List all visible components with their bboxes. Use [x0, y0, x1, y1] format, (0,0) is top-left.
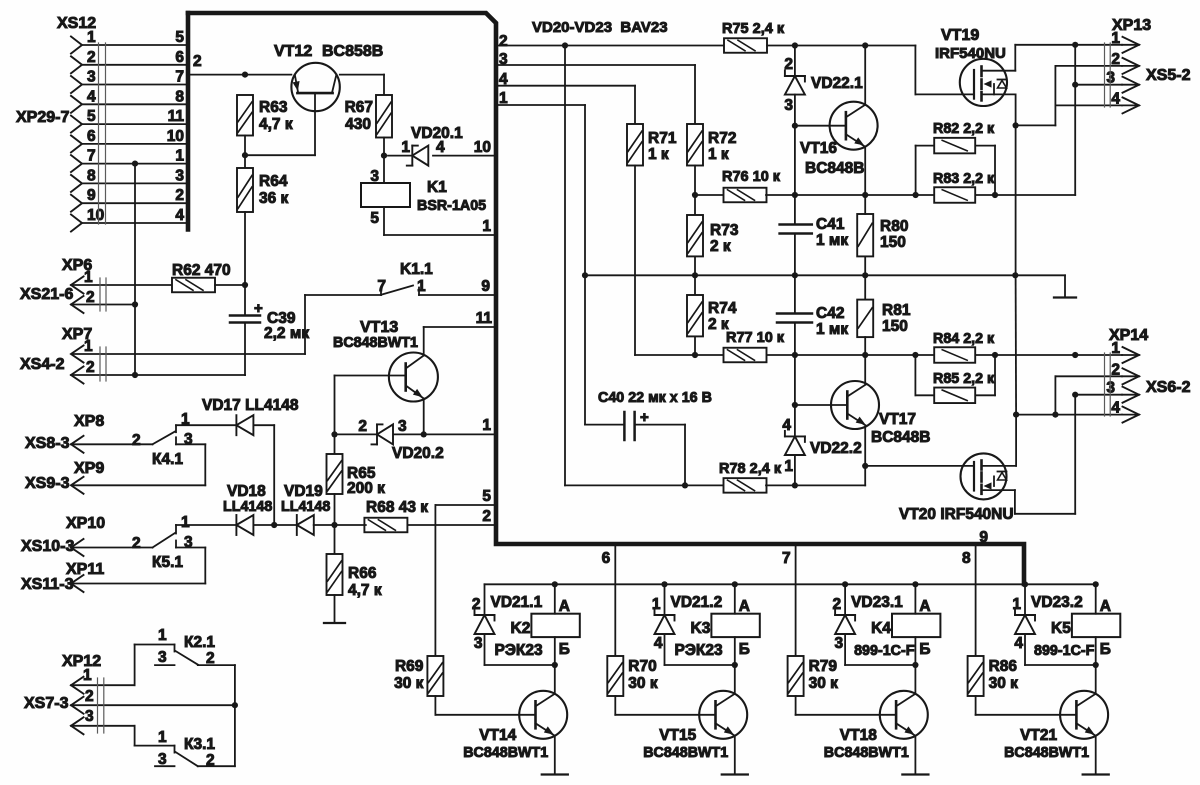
- transistor VT18 (NPN): [880, 691, 928, 739]
- connector XP14 pin 3 chevron: [1123, 387, 1140, 403]
- svg-text:VD20.2: VD20.2: [392, 445, 444, 462]
- wire VT21 collector: [1095, 665, 1097, 694]
- resistor R69: [427, 656, 443, 696]
- connector XS12 pin 7 chevron: [71, 155, 82, 172]
- wire VT16 base: [792, 123, 798, 129]
- svg-text:8: 8: [962, 550, 971, 567]
- wire K1.1 to module pin 9: [419, 294, 496, 296]
- transistor VT12 (PNP): [291, 63, 339, 111]
- connector XS12 pin 5 chevron: [71, 116, 82, 133]
- wire VT15 collector: [734, 665, 736, 694]
- module pin 7 wire to R79: [795, 544, 797, 656]
- XP14 pin2 row: [1055, 375, 1122, 377]
- svg-text:5: 5: [482, 488, 491, 505]
- svg-text:XS4-2: XS4-2: [20, 356, 65, 373]
- svg-text:Б: Б: [919, 641, 930, 658]
- wire K2.1 contact2: [198, 664, 235, 666]
- svg-text:R73: R73: [710, 222, 739, 239]
- svg-text:3: 3: [1106, 70, 1115, 87]
- svg-text:4: 4: [782, 417, 791, 434]
- wire VT19 drain to XP13 pin1: [1015, 44, 1122, 46]
- wire VT21 emitter to ground: [1095, 736, 1097, 775]
- svg-text:3: 3: [158, 649, 167, 666]
- svg-text:XS7-3: XS7-3: [24, 695, 69, 712]
- connector XS12 pin 3 chevron: [71, 76, 82, 93]
- svg-text:1: 1: [175, 148, 184, 165]
- XP13 pin2 row: [1055, 65, 1122, 67]
- svg-text:R81: R81: [882, 302, 911, 319]
- resistor R66: [334, 525, 336, 554]
- svg-text:430: 430: [345, 116, 371, 133]
- svg-text:899-1C-F: 899-1C-F: [1034, 643, 1095, 659]
- resistor R83: [934, 187, 975, 203]
- resistor R81: [857, 300, 873, 338]
- relay K5 terminal wires: [1093, 581, 1099, 587]
- svg-text:3: 3: [85, 708, 94, 725]
- svg-text:4: 4: [175, 207, 184, 224]
- svg-text:10: 10: [167, 128, 184, 145]
- wire K5.1 contact1 to VD18: [176, 524, 236, 526]
- svg-text:1: 1: [84, 269, 93, 286]
- svg-text:4: 4: [654, 635, 663, 652]
- svg-text:R66: R66: [348, 565, 377, 582]
- wire R81 to R84 row: [864, 337, 866, 384]
- svg-text:VT18: VT18: [840, 727, 877, 744]
- svg-text:5: 5: [175, 29, 184, 46]
- svg-text:7: 7: [87, 148, 96, 165]
- ground symbol right: [1064, 275, 1066, 297]
- svg-text:1: 1: [83, 667, 92, 684]
- svg-text:R76 10 к: R76 10 к: [722, 169, 781, 185]
- svg-text:R79: R79: [809, 658, 838, 675]
- connector XS12 pin 6 wire: [82, 143, 188, 145]
- cable marker XP6: [99, 278, 101, 311]
- R77/R84 long row: [635, 354, 724, 356]
- svg-text:VD21.1: VD21.1: [491, 594, 543, 611]
- wire R62 to C39 node: [215, 284, 245, 286]
- svg-text:VT16: VT16: [800, 140, 837, 157]
- diode VD17: [235, 415, 237, 435]
- svg-text:K1.1: K1.1: [400, 261, 433, 278]
- svg-text:R75 2,4 к: R75 2,4 к: [722, 21, 785, 37]
- relay coil K4: [892, 614, 940, 637]
- resistor R64: [237, 168, 253, 212]
- svg-text:7: 7: [175, 69, 184, 86]
- wire VT14 emitter to ground: [554, 736, 556, 775]
- relay coil K1: [361, 183, 410, 207]
- svg-text:Б: Б: [1100, 641, 1111, 658]
- svg-text:R74: R74: [708, 300, 737, 317]
- svg-text:VT13: VT13: [360, 319, 398, 336]
- svg-text:А: А: [919, 598, 930, 615]
- svg-text:R83 2,2 к: R83 2,2 к: [933, 171, 995, 187]
- resistor R62: [172, 278, 215, 293]
- svg-text:2: 2: [132, 432, 141, 449]
- svg-text:2 к: 2 к: [710, 238, 731, 255]
- svg-text:R64: R64: [259, 173, 288, 190]
- svg-text:1: 1: [158, 627, 167, 644]
- R84/R85 right link: [994, 355, 996, 395]
- svg-text:2: 2: [358, 418, 367, 435]
- connector XP7 pin 2: [71, 367, 84, 384]
- connector XP10 pin wire: [71, 539, 84, 556]
- svg-text:А: А: [739, 598, 750, 615]
- svg-text:R85 2,2 к: R85 2,2 к: [933, 371, 995, 387]
- svg-text:VT19: VT19: [941, 27, 979, 44]
- resistor R63: [237, 95, 253, 136]
- resistor R74: [687, 295, 703, 336]
- svg-text:2: 2: [499, 33, 508, 50]
- svg-text:3: 3: [398, 418, 407, 435]
- R82 right wire: [975, 145, 995, 147]
- svg-text:XS9-3: XS9-3: [25, 475, 70, 492]
- capacitor C42: [794, 275, 796, 313]
- module block thick border with beveled corner: [188, 13, 1024, 584]
- svg-text:XS11-3: XS11-3: [21, 576, 74, 593]
- svg-text:VD23.2: VD23.2: [1031, 594, 1083, 611]
- svg-text:10: 10: [474, 139, 491, 156]
- svg-text:R77 10 к: R77 10 к: [726, 330, 785, 346]
- relay K2 terminal wires: [552, 581, 558, 587]
- svg-text:150: 150: [882, 318, 908, 335]
- svg-text:VD20-VD23 BAV23: VD20-VD23 BAV23: [532, 19, 668, 36]
- cell K5 bottom link: [1025, 664, 1096, 666]
- capacitor C39: [244, 285, 246, 316]
- svg-text:VD17 LL4148: VD17 LL4148: [202, 397, 299, 414]
- ground VT15: [722, 773, 748, 775]
- relay supply rail: [485, 583, 1096, 585]
- transistor VT17 (NPN): [831, 381, 879, 429]
- connector XP12 pin 3: [71, 717, 84, 734]
- svg-text:R67: R67: [345, 99, 373, 116]
- svg-text:VT17: VT17: [879, 411, 916, 428]
- wire VT17 base: [794, 355, 796, 405]
- wire VT18 emitter to ground: [914, 736, 916, 775]
- wire VT15 emitter to ground: [734, 736, 736, 775]
- svg-text:XS8-3: XS8-3: [25, 435, 70, 452]
- ground VT14: [542, 773, 568, 775]
- connector XS12 pin 6 chevron: [71, 135, 82, 152]
- diode VD23.2 (dual zener half): [1024, 584, 1026, 615]
- resistor R73: [687, 215, 703, 256]
- svg-text:LL4148: LL4148: [281, 499, 330, 515]
- R76 row wire: [695, 194, 724, 196]
- relay coil K5: [1072, 614, 1120, 637]
- connector XP13 pin 4 chevron: [1123, 97, 1140, 113]
- connector XS12 pin 8 wire: [82, 182, 188, 184]
- connector XS12 pin 4 chevron: [71, 96, 82, 113]
- wire R65 to R68 row: [334, 494, 336, 525]
- R82 left wire: [916, 145, 934, 147]
- connector XP9 chevron: [71, 477, 84, 494]
- wire R63 to R64: [244, 136, 246, 169]
- wire VT14 collector: [554, 665, 556, 694]
- wire VT20 drain riser: [1015, 415, 1017, 466]
- cable marker XP13: [1104, 43, 1106, 107]
- diode VD18: [235, 515, 237, 535]
- svg-text:9: 9: [481, 278, 490, 295]
- svg-text:К2.1: К2.1: [184, 634, 215, 651]
- wire VT19 source down: [1015, 94, 1017, 125]
- connector XP6 pin 2: [71, 296, 84, 313]
- svg-text:РЭК23: РЭК23: [675, 642, 723, 659]
- diode VD20.1: [411, 146, 413, 166]
- svg-text:2: 2: [175, 187, 184, 204]
- transistor VT19 (MOSFET): [960, 59, 1007, 106]
- svg-text:1: 1: [181, 514, 190, 531]
- svg-text:VT12: VT12: [274, 43, 312, 60]
- connector XS12 pin 10 chevron: [71, 215, 82, 232]
- svg-text:3: 3: [1106, 380, 1115, 397]
- wire VD19 to R68: [314, 524, 366, 526]
- module pin 6 wire to R70: [614, 544, 616, 656]
- R83 row nodes: [913, 192, 919, 198]
- svg-text:XP12: XP12: [62, 653, 101, 670]
- XP14 pin3 row: [1075, 394, 1122, 396]
- XP13 pin3 row: [1075, 84, 1122, 86]
- svg-text:VD23.1: VD23.1: [851, 594, 903, 611]
- wire K5.1 contact3 to XP11: [176, 547, 205, 549]
- connector XP13 pin 3 chevron: [1123, 77, 1140, 93]
- svg-text:3: 3: [370, 168, 379, 185]
- svg-text:30 к: 30 к: [394, 675, 424, 692]
- resistor R71: [627, 124, 643, 166]
- svg-text:3: 3: [175, 167, 184, 184]
- module block left edge: [186, 13, 191, 230]
- svg-text:XS21-6: XS21-6: [20, 286, 73, 303]
- svg-text:1: 1: [482, 218, 491, 235]
- wire VT20 source: [1014, 490, 1016, 514]
- connector XS12 pin 1 chevron: [71, 37, 82, 54]
- connector XP11 chevron: [71, 575, 84, 592]
- svg-text:6: 6: [87, 128, 96, 145]
- wire VT12 collector to R67: [340, 74, 384, 76]
- wire VT16 emitter to R76 row: [864, 147, 866, 195]
- svg-text:4,7 к: 4,7 к: [259, 116, 293, 133]
- wire VT17 emitter: [864, 427, 866, 486]
- svg-text:C42: C42: [816, 305, 844, 322]
- connector XS12 pin 8 chevron: [71, 175, 82, 192]
- svg-text:6: 6: [175, 49, 184, 66]
- wire pin2-row down to R78 row: [562, 42, 568, 48]
- wire XP7 pin2 to VT13 base: [244, 374, 246, 376]
- connector XP14 pin 2 chevron: [1123, 368, 1140, 384]
- svg-text:LL4148: LL4148: [223, 499, 272, 515]
- wire VT18 collector: [914, 665, 916, 694]
- svg-text:5: 5: [87, 108, 96, 125]
- cell K2 bottom link: [485, 664, 555, 666]
- wire R86 to VT21 base: [975, 696, 977, 715]
- svg-text:36 к: 36 к: [259, 190, 289, 207]
- ground VT21: [1083, 773, 1109, 775]
- svg-text:VD22.2: VD22.2: [810, 440, 862, 457]
- svg-text:3: 3: [784, 97, 793, 114]
- wire VT13 collector to module pin 11: [423, 327, 425, 356]
- wire R72 to R73: [694, 166, 696, 216]
- svg-text:BC848B: BC848B: [805, 160, 864, 177]
- svg-text:30 к: 30 к: [628, 675, 658, 692]
- svg-text:2: 2: [85, 688, 94, 705]
- relay coil K2: [531, 614, 579, 637]
- svg-text:R78 2,4 к: R78 2,4 к: [719, 461, 782, 477]
- svg-text:K4: K4: [871, 620, 891, 637]
- svg-text:2,2 мк: 2,2 мк: [264, 325, 309, 342]
- svg-text:BC858B: BC858B: [322, 43, 383, 60]
- connector XS12 pin 10 wire: [82, 222, 188, 224]
- connector XS12 pin 3 wire: [82, 84, 188, 86]
- ground VT18: [902, 773, 928, 775]
- svg-text:2: 2: [472, 596, 481, 613]
- svg-text:R72: R72: [708, 130, 736, 147]
- svg-text:4: 4: [87, 88, 96, 105]
- svg-text:2: 2: [86, 359, 95, 376]
- wire K3.1 contact2: [198, 765, 235, 767]
- svg-text:1: 1: [87, 29, 96, 46]
- svg-text:К5.1: К5.1: [152, 554, 183, 571]
- cable marker XP14: [1104, 353, 1106, 416]
- diode VD21.1 (dual zener half): [484, 584, 486, 615]
- svg-text:11: 11: [168, 108, 185, 125]
- connector XS12 pin 1 wire: [82, 44, 188, 46]
- svg-text:3: 3: [474, 635, 483, 652]
- svg-text:VT15: VT15: [659, 727, 696, 744]
- connector XS12 pin 7 wire: [82, 163, 188, 165]
- wire R69 to VT14 base: [434, 696, 436, 715]
- svg-text:XS10-3: XS10-3: [21, 538, 74, 555]
- wire pins1,3 to R83 row: [1074, 45, 1076, 195]
- ground under R66: [334, 595, 336, 623]
- wire VT16 collector: [864, 46, 866, 105]
- connector XS12 pin 4 wire: [82, 103, 188, 105]
- svg-text:R63: R63: [259, 99, 288, 116]
- resistor R76: [724, 188, 767, 203]
- transistor VT21 (NPN): [1060, 691, 1108, 739]
- connector XP12 pin 2: [71, 697, 84, 714]
- svg-text:IRF540NU: IRF540NU: [935, 45, 1006, 62]
- transistor VT20 (MOSFET): [961, 453, 1007, 499]
- wire pin5 down to K2 cell: [434, 505, 436, 656]
- svg-text:R68 43 к: R68 43 к: [366, 499, 428, 516]
- svg-text:K2: K2: [511, 620, 531, 637]
- resistor R75: [724, 38, 767, 53]
- wire R74 to R77 row: [694, 336, 696, 355]
- svg-text:4,7 к: 4,7 к: [348, 582, 382, 599]
- module pin 8 wire to R86: [975, 544, 977, 656]
- svg-text:+: +: [640, 409, 649, 426]
- svg-text:4: 4: [1014, 635, 1023, 652]
- resistor R82: [934, 138, 975, 154]
- wire R64 down to R62 junction: [244, 212, 246, 285]
- svg-text:Б: Б: [739, 641, 750, 658]
- relay K4 terminal wires: [912, 581, 918, 587]
- svg-text:К3.1: К3.1: [184, 736, 215, 753]
- svg-text:2: 2: [784, 56, 793, 73]
- svg-text:1: 1: [784, 458, 793, 475]
- resistor R84: [934, 347, 975, 363]
- resistor R70: [607, 656, 623, 696]
- svg-text:11: 11: [476, 310, 493, 327]
- connector XP12 pin 1: [71, 677, 84, 694]
- svg-text:6: 6: [602, 550, 611, 567]
- wire source to XP13 pins 2,4: [1016, 124, 1056, 126]
- svg-text:BC848BWT1: BC848BWT1: [333, 335, 418, 351]
- svg-text:XP29-7: XP29-7: [16, 109, 69, 126]
- connector XP14 pin 4 chevron: [1123, 407, 1140, 423]
- diode VD19: [296, 515, 298, 535]
- svg-text:VT20 IRF540NU: VT20 IRF540NU: [899, 506, 1014, 523]
- svg-text:5: 5: [370, 210, 379, 227]
- svg-text:К4.1: К4.1: [152, 451, 183, 468]
- module pin 5 wire: [435, 504, 496, 506]
- XP14 pin4 row: [1016, 414, 1122, 416]
- cable marker XP12: [97, 678, 99, 733]
- svg-text:XP10: XP10: [66, 515, 105, 532]
- cell K4 bottom link: [845, 664, 915, 666]
- svg-text:BC848BWT1: BC848BWT1: [463, 745, 548, 761]
- svg-text:VT14: VT14: [479, 727, 516, 744]
- connector XS12 pin 9 wire: [82, 202, 188, 204]
- connector XP8 pin wire: [71, 436, 84, 453]
- wire R71 to R77 row: [634, 166, 636, 356]
- svg-text:R86: R86: [989, 658, 1018, 675]
- connector XP7 pin 1: [71, 346, 84, 363]
- svg-text:VT21: VT21: [1020, 727, 1057, 744]
- svg-text:R71: R71: [648, 130, 677, 147]
- relay coil K3: [711, 614, 759, 637]
- wire from XS12 row7 down to XP7 area: [132, 161, 138, 167]
- svg-text:XS5-2: XS5-2: [1146, 67, 1191, 84]
- svg-text:1 к: 1 к: [708, 146, 729, 163]
- svg-text:2: 2: [87, 49, 96, 66]
- connector XS12 pin 2 wire: [82, 64, 188, 66]
- connector XS12 pin 5 wire: [82, 123, 188, 125]
- connector XP14 pin 1 chevron: [1123, 347, 1140, 363]
- svg-text:+: +: [254, 300, 263, 317]
- svg-text:C40 22 мк х 16 В: C40 22 мк х 16 В: [598, 390, 712, 406]
- svg-text:VD18: VD18: [227, 483, 266, 500]
- svg-text:3: 3: [184, 534, 193, 551]
- transistor VT13 (NPN): [389, 353, 438, 402]
- svg-text:1: 1: [1111, 30, 1120, 47]
- cell K3 bottom link: [665, 664, 735, 666]
- connector XP13 pin 1 chevron: [1123, 37, 1140, 53]
- capacitor C40: [584, 275, 586, 424]
- resistor R80: [857, 214, 873, 256]
- wire R78 to VT17 emitter: [766, 484, 865, 486]
- svg-text:1: 1: [1111, 340, 1120, 357]
- svg-text:1 мк: 1 мк: [816, 321, 848, 338]
- resistor R67: [376, 95, 392, 138]
- svg-text:10: 10: [87, 207, 104, 224]
- common wire (mid rail): [585, 274, 1065, 276]
- wire VT13 emitter to VD20.2 row: [423, 399, 425, 435]
- wire R76 to R83: [766, 194, 934, 196]
- svg-text:1 к: 1 к: [648, 146, 669, 163]
- resistor R77: [724, 348, 767, 363]
- wire pin2 row to VT12 emitter: [188, 74, 291, 76]
- wire VT17 emitter node to VT20 gate: [865, 465, 974, 467]
- node VD23.2 on rail: [1022, 581, 1028, 587]
- svg-text:VD19: VD19: [284, 483, 323, 500]
- wire VD17 to VD18 row: [253, 424, 274, 426]
- zener VD22.1: [794, 46, 796, 77]
- svg-text:2: 2: [132, 535, 141, 552]
- svg-text:1: 1: [652, 596, 661, 613]
- svg-text:3: 3: [87, 69, 96, 86]
- svg-text:150: 150: [880, 234, 906, 251]
- cable marker XS12: [98, 43, 100, 224]
- svg-text:2: 2: [86, 289, 95, 306]
